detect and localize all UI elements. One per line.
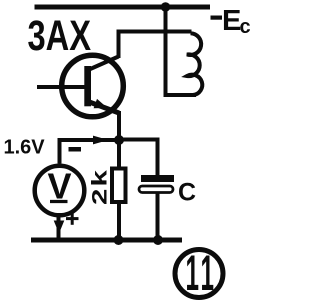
svg-text:1: 1: [186, 245, 200, 301]
voltmeter M1 underline: [50, 200, 68, 203]
arrow on voltmeter top wire (pointing right): [93, 136, 109, 145]
arrow on voltmeter bottom wire (pointing down): [54, 221, 65, 234]
transistor Q1 emitter lead: [88, 102, 119, 114]
inductor L (coil, three right-bulging arcs): [187, 33, 202, 95]
resistor R1 body (2k): [112, 169, 126, 203]
wire: vertical from rail junction down to coil bottom: [164, 7, 168, 95]
wire: emitter node down through resistor to ground rail: [117, 140, 121, 240]
wire: capacitor branch from emitter node: [121, 140, 158, 177]
node: emitter junction dot: [114, 135, 124, 145]
node: junction dot on top rail: [161, 2, 171, 12]
voltmeter M1 circle: [35, 166, 85, 216]
label plus terminal vertical: [71, 212, 74, 224]
svg-text:2k: 2k: [88, 168, 111, 205]
wire: corner vertical down to collector: [117, 30, 121, 59]
label -Ec (supply): [211, 16, 223, 20]
svg-text:1: 1: [201, 245, 215, 301]
node: capacitor-rail junction dot: [153, 235, 163, 245]
transistor Q1 collector lead: [88, 57, 119, 71]
svg-text:E: E: [222, 5, 241, 37]
capacitor C top plate (solid): [141, 175, 174, 182]
node: resistor-rail junction dot: [114, 235, 124, 245]
svg-text:C: C: [178, 179, 196, 207]
svg-text:1.6V: 1.6V: [4, 137, 46, 159]
transistor Q1 base bar: [84, 66, 91, 106]
capacitor C bottom plate (outlined): [139, 186, 173, 193]
svg-text:c: c: [240, 16, 251, 38]
label plus terminal horizontal: [66, 217, 79, 220]
figure number circle: [175, 250, 223, 298]
wire: coil bottom return: [164, 93, 197, 97]
transistor Q1 body circle: [62, 55, 124, 117]
transistor Q1 base lead: [37, 85, 86, 89]
wire: capacitor bottom lead: [156, 193, 160, 240]
transistor Q1 emitter arrow: [94, 99, 108, 108]
wire: emitter vertical down to junction: [117, 111, 121, 145]
label minus terminal: [69, 147, 82, 152]
svg-text:3AX: 3AX: [28, 12, 92, 60]
wire: collector horizontal to coil top: [117, 30, 192, 34]
wire: top supply rail: [35, 5, 211, 10]
wire: voltmeter bottom lead: [57, 215, 61, 240]
wire: voltmeter top lead with corner: [60, 140, 120, 164]
wire: bottom ground rail: [31, 238, 182, 243]
